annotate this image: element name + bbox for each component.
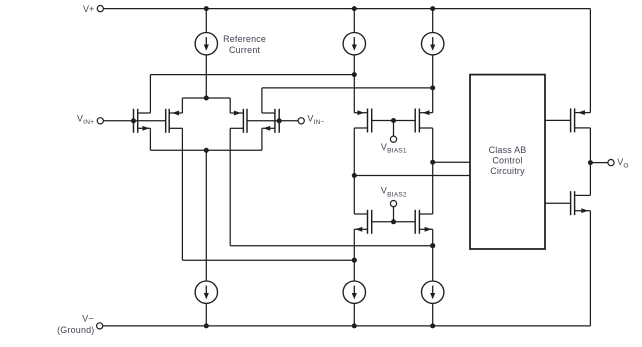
wire box to Q9 gate (545, 119, 571, 121)
wire inner-pair source bus (182, 97, 230, 99)
junction V+/I3 (430, 6, 435, 11)
svg-text:Circuitry: Circuitry (490, 166, 525, 176)
wire Q5/Q6 gate bus (372, 120, 416, 122)
wire Q6 drain down (432, 128, 434, 214)
current source IREF (Reference Current) (195, 33, 217, 55)
wire I3 to cascode Q6 source (432, 55, 434, 113)
wire VIN+ to Q1/Q2 gates (103, 120, 165, 122)
wire outer tail to I4 (205, 150, 207, 281)
junction output node VO (588, 160, 593, 165)
transistor Q4 (outer-right NMOS input) (262, 109, 279, 133)
terminal VBIAS1 (393, 121, 395, 137)
wire I2 stem top (353, 9, 355, 33)
transistor Q3 (inner-right PMOS input) (230, 109, 247, 133)
wire Q7/Q8 gate bus (372, 221, 416, 223)
transistor Q6 (upper cascode right PMOS) (415, 109, 433, 133)
svg-text:Class AB: Class AB (489, 145, 527, 155)
terminal VIN- (298, 118, 304, 124)
terminal V+ (97, 6, 103, 12)
svg-text:VIN−: VIN− (307, 113, 324, 126)
terminal VBIAS2 (393, 207, 395, 222)
current source I6 (422, 281, 444, 303)
wire Q10 source to V- rail (589, 211, 591, 326)
terminal VO (590, 162, 608, 164)
current source I5 (343, 281, 365, 303)
transistor Q8 (lower cascode right NMOS) (415, 210, 433, 234)
wire IREF to inner-pair tail node (205, 55, 207, 98)
terminal V- (Ground) (97, 323, 103, 329)
junction V+/IREF (204, 6, 209, 11)
junction Q5 drain/box wire (352, 173, 357, 178)
wire V- rail (103, 325, 591, 327)
svg-text:VO: VO (617, 157, 629, 170)
junction Q7 source/y260 (352, 258, 357, 263)
wire box to Q10 gate (545, 202, 571, 204)
junction y246/I6 stem (430, 243, 435, 248)
junction y260/I5 stem (352, 258, 357, 263)
svg-text:VIN+: VIN+ (77, 113, 94, 126)
svg-text:Reference: Reference (223, 34, 266, 44)
svg-text:Current: Current (229, 45, 261, 55)
transistor Q7 (lower cascode left NMOS) (354, 210, 372, 234)
junction Q6 drain/box wire (430, 160, 435, 165)
junction V-/I5 (352, 323, 357, 328)
svg-text:Control: Control (492, 156, 522, 166)
wire Q4 drain to I3 stem (y=87.9) (262, 87, 433, 89)
wire V+ rail (103, 8, 590, 10)
wire I6 to V- rail (432, 303, 434, 326)
junction V+/I2 (352, 6, 357, 11)
wire Q6 drain to Class AB box (433, 161, 470, 163)
wire Q2 drain down to y260 bus (181, 128, 183, 260)
wire Q7 source down to I5 (353, 229, 355, 281)
wire Q1 drain to cascode/I2 node (y=74.6) (150, 74, 354, 76)
junction VIN-/Q4 gate (277, 118, 282, 123)
junction V-/I6 (430, 323, 435, 328)
wire IREF stem top (205, 9, 207, 33)
current source I3 (422, 33, 444, 55)
transistor Q1 (outer-left NMOS input) (134, 109, 151, 133)
wire outer-pair source bus (150, 149, 262, 151)
wire Q8 source down to I6 (432, 229, 434, 281)
current source I4 (195, 281, 217, 303)
junction y74/I2 stem (352, 72, 357, 77)
wire Q3 drain down to y246 bus (229, 128, 231, 245)
current source I2 (343, 33, 365, 55)
wire Q9 source to V+ rail (589, 9, 591, 113)
wire I3 stem top (432, 9, 434, 33)
transistor Q9 (output PMOS) (571, 108, 591, 132)
svg-text:VBIAS2: VBIAS2 (381, 186, 407, 199)
junction inner tail/IREF (204, 96, 209, 101)
wire Q5 drain down (353, 128, 355, 214)
junction outer tail/I4 (204, 148, 209, 153)
wire Q9 drain to output node (589, 128, 591, 163)
svg-text:V+: V+ (83, 4, 95, 14)
junction VIN+/Q1 gate (131, 118, 136, 123)
wire I5 to V- rail (353, 303, 355, 326)
terminal VIN+ (97, 118, 103, 124)
transistor Q2 (inner-left PMOS input) (166, 109, 183, 133)
junction VBIAS2 tap (391, 219, 396, 224)
block U1 Class AB Control Circuitry (470, 75, 545, 249)
junction Q8 source/y246 (430, 243, 435, 248)
wire Q5 drain to Class AB box (354, 175, 470, 177)
svg-text:(Ground): (Ground) (57, 325, 94, 335)
wire I2 to cascode Q5 source (353, 55, 355, 113)
wire output node to Q10 drain (589, 163, 591, 196)
svg-text:V−: V− (82, 314, 94, 324)
wire VIN- to Q3/Q4 gates (247, 120, 298, 122)
junction VBIAS1 tap (391, 118, 396, 123)
junction V-/I4 (204, 323, 209, 328)
junction y88/I3 stem (430, 85, 435, 90)
wire I4 to V- rail (205, 303, 207, 326)
transistor Q5 (upper cascode left PMOS) (354, 109, 372, 133)
svg-text:VBIAS1: VBIAS1 (381, 142, 407, 155)
transistor Q10 (output NMOS) (571, 191, 591, 215)
